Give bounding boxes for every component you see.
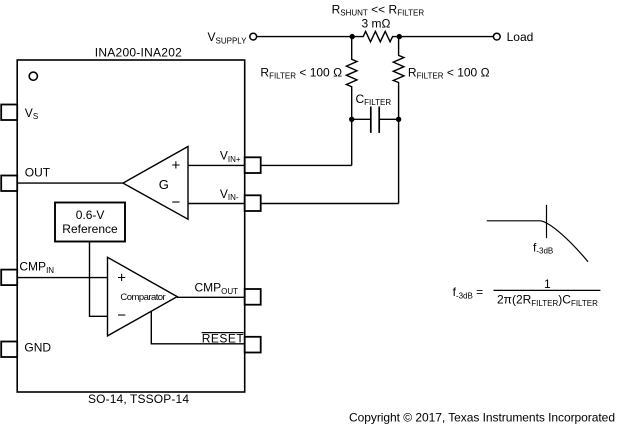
label INA200-INA202 [95, 46, 182, 60]
svg-text:Reference: Reference [62, 222, 118, 236]
svg-text:VIN+: VIN+ [220, 149, 241, 164]
label VIN- [220, 187, 239, 202]
svg-text:VS: VS [25, 106, 38, 121]
svg-text:Load: Load [507, 30, 534, 44]
pin OUT [1, 176, 17, 192]
label RFILTER left < 100 Ohm [260, 65, 342, 80]
resistor RSHUNT 3 mOhm [352, 17, 400, 42]
svg-text:G: G [159, 177, 169, 192]
wire op-amp -input to VIN- pin [188, 203, 245, 205]
svg-text:1: 1 [544, 277, 551, 291]
pin VIN+ [245, 157, 261, 173]
svg-text:SO-14, TSSOP-14: SO-14, TSSOP-14 [88, 392, 189, 406]
label VS [25, 106, 38, 121]
label Load [507, 30, 534, 44]
pin RESET [245, 337, 261, 353]
label CFILTER [356, 92, 392, 107]
wire left filter branch to VIN+ pin [261, 164, 352, 166]
svg-text:INA200-INA202: INA200-INA202 [95, 46, 182, 60]
svg-text:3 mΩ: 3 mΩ [362, 17, 391, 31]
pin GND [1, 342, 17, 358]
label CMPIN [19, 260, 54, 275]
reference 0.6-V box [55, 203, 125, 242]
label RFILTER right < 100 Ohm [408, 65, 490, 80]
label VIN+ [220, 149, 241, 164]
svg-text:−: − [117, 307, 126, 324]
wire CMPIN pin to comparator +input [17, 277, 107, 279]
svg-text:GND: GND [24, 341, 51, 355]
op-amp U1a gain stage [123, 147, 188, 220]
pin-1 indicator [29, 72, 37, 80]
wire op-amp +input to VIN+ pin [188, 164, 245, 166]
svg-text:+: + [117, 270, 126, 287]
label f-3dB (curve) [533, 241, 553, 256]
svg-text:CFILTER: CFILTER [356, 92, 392, 107]
resistor RFILTER left [346, 37, 357, 166]
svg-text:OUT: OUT [25, 166, 51, 180]
capacitor CFILTER [352, 107, 399, 133]
node D (right capacitor junction) [396, 117, 401, 122]
wire VSUPPLY to node A [257, 36, 353, 38]
svg-text:RFILTER < 100 Ω: RFILTER < 100 Ω [408, 65, 490, 80]
comparator U1b [108, 257, 178, 336]
pin VS [1, 105, 17, 121]
svg-text:RSHUNT << RFILTER: RSHUNT << RFILTER [332, 2, 425, 17]
pin CMPIN [1, 270, 17, 286]
label RSHUNT << RFILTER [332, 2, 425, 17]
copyright note [349, 411, 615, 425]
node B (right shunt node) [397, 34, 402, 39]
svg-text:f-3dB =: f-3dB = [453, 285, 484, 300]
wire comparator output to CMPOUT pin [177, 296, 245, 298]
svg-text:Comparator: Comparator [120, 292, 165, 303]
svg-text:+: + [172, 157, 181, 174]
svg-text:Copyright © 2017, Texas Instru: Copyright © 2017, Texas Instruments Inco… [349, 411, 615, 425]
pin VIN- [245, 195, 261, 211]
svg-text:VSUPPLY: VSUPPLY [208, 30, 248, 45]
label CMPOUT [195, 281, 239, 296]
resistor RFILTER right [393, 37, 404, 204]
svg-text:VIN-: VIN- [220, 187, 239, 202]
svg-text:0.6-V: 0.6-V [76, 208, 105, 222]
wire comparator to RESET pin [151, 312, 244, 344]
label GND [24, 341, 51, 355]
formula f-3dB = 1/(2pi(2RFILTER)CFILTER) [453, 277, 601, 308]
node C (left capacitor junction) [349, 117, 354, 122]
svg-text:CMPOUT: CMPOUT [195, 281, 239, 296]
label RESET (active low, overline) [202, 332, 245, 346]
terminal VSUPPLY [250, 33, 257, 40]
frequency response curve [487, 205, 588, 262]
label VSUPPLY [208, 30, 248, 45]
svg-text:CMPIN: CMPIN [19, 260, 54, 275]
svg-text:RFILTER < 100 Ω: RFILTER < 100 Ω [260, 65, 342, 80]
wire node B to Load terminal [399, 36, 493, 38]
wire reference to comparator -input [90, 242, 108, 317]
pin CMPOUT [245, 289, 261, 305]
svg-text:2π(2RFILTER)CFILTER: 2π(2RFILTER)CFILTER [497, 293, 598, 308]
label SO-14, TSSOP-14 [88, 392, 189, 406]
label OUT [25, 166, 51, 180]
wire right filter branch to VIN- pin [261, 203, 399, 205]
wire OUT to op-amp output [17, 182, 123, 184]
svg-text:f-3dB: f-3dB [533, 241, 553, 256]
IC body U1 INA200-INA202 [17, 60, 245, 392]
node A (left shunt node) [350, 34, 355, 39]
terminal Load [493, 33, 500, 40]
svg-text:−: − [172, 194, 181, 211]
